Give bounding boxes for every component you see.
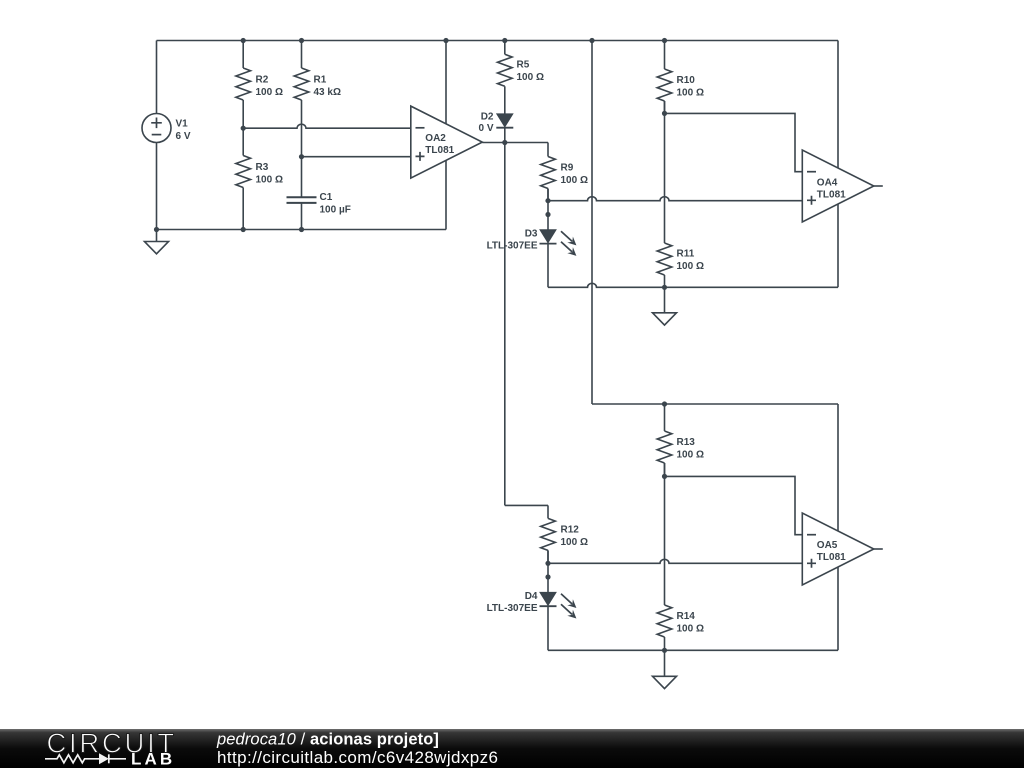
svg-text:V1: V1 bbox=[176, 119, 189, 130]
wire OA4 feedback (R10/R11 node to inverting input) bbox=[665, 113, 803, 171]
svg-text:6 V: 6 V bbox=[176, 131, 191, 142]
resistor R9 bbox=[541, 157, 556, 201]
svg-text:http://circuitlab.com/c6v428wj: http://circuitlab.com/c6v428wjdxpz6 bbox=[217, 748, 498, 767]
junction node R12/D4 segment joint bbox=[545, 574, 550, 579]
CircuitLab logo resistor-diode glyph bbox=[45, 754, 126, 763]
resistor R12 bbox=[541, 505, 556, 563]
diode D2 bbox=[496, 114, 513, 143]
svg-text:pedroca10 / acionas projeto]: pedroca10 / acionas projeto] bbox=[216, 730, 439, 748]
voltage source V1 bbox=[142, 114, 171, 143]
diode D3 bbox=[540, 230, 557, 287]
capacitor C1 bbox=[287, 197, 317, 229]
svg-text:TL081: TL081 bbox=[817, 190, 846, 201]
wire lower section bottom rail bbox=[548, 649, 838, 651]
svg-text:100 Ω: 100 Ω bbox=[256, 175, 283, 186]
wire OA5 power pins rail bbox=[837, 404, 839, 650]
svg-text:D2: D2 bbox=[481, 112, 494, 123]
svg-text:R1: R1 bbox=[314, 75, 327, 86]
wire OA5 output stub bbox=[874, 548, 883, 550]
wire OA4 non-inverting input (hops over two columns) bbox=[548, 197, 802, 201]
label R5 value bbox=[517, 60, 544, 84]
junction dot top rail at R1 top bbox=[299, 38, 304, 43]
op-amp OA5 bbox=[802, 513, 874, 585]
ground (left, V1 negative) bbox=[145, 230, 169, 254]
op-amp OA4 bbox=[802, 150, 874, 222]
svg-text:LAB: LAB bbox=[131, 750, 175, 768]
label C1 value bbox=[320, 192, 351, 216]
label R2 value bbox=[256, 75, 283, 99]
svg-text:OA2: OA2 bbox=[425, 133, 446, 144]
svg-text:R9: R9 bbox=[561, 163, 574, 174]
svg-text:R10: R10 bbox=[677, 75, 696, 86]
junction node R12/D4 to OA5 + bbox=[545, 561, 550, 566]
svg-text:LTL-307EE: LTL-307EE bbox=[487, 603, 538, 614]
wire R13 bottom to R14 top bbox=[664, 463, 666, 605]
svg-text:100 Ω: 100 Ω bbox=[256, 87, 283, 98]
svg-text:R5: R5 bbox=[517, 60, 530, 71]
wire upper section bottom rail (hop over feedback column) bbox=[548, 283, 838, 287]
junction node R10/R11 feedback bbox=[662, 111, 667, 116]
wire V1 bottom to ground rail bbox=[156, 143, 158, 230]
resistor R1 bbox=[294, 41, 309, 198]
svg-text:R12: R12 bbox=[561, 525, 580, 536]
resistor R10 bbox=[657, 41, 672, 114]
junction node OA2 output / D2 bbox=[502, 140, 507, 145]
junction node R2/R3 inverting bbox=[241, 126, 246, 131]
footer bar bbox=[0, 729, 1024, 768]
wire non-inverting input (C1 top to OA2) bbox=[302, 156, 411, 158]
svg-text:TL081: TL081 bbox=[817, 552, 846, 563]
svg-text:D3: D3 bbox=[525, 229, 538, 240]
junction node R3 bottom on ground rail bbox=[241, 227, 246, 232]
resistor R2 bbox=[236, 41, 251, 129]
junction dot top rail at R2 top bbox=[241, 38, 246, 43]
svg-text:100 Ω: 100 Ω bbox=[561, 537, 588, 548]
junction node R9/D3 segment joint bbox=[545, 212, 550, 217]
ground (upper right) bbox=[653, 287, 677, 325]
wire inverting input (R2/R3 node to OA2, hop over R1) bbox=[243, 124, 411, 128]
svg-text:100 µF: 100 µF bbox=[320, 205, 351, 216]
junction node ground rail at V1 bbox=[154, 227, 159, 232]
label R10 value bbox=[677, 75, 704, 99]
op-amp OA2 bbox=[411, 106, 483, 178]
label R9 value bbox=[561, 163, 588, 187]
resistor R11 bbox=[657, 243, 672, 287]
junction dot top rail at R5 top bbox=[502, 38, 507, 43]
svg-text:100 Ω: 100 Ω bbox=[677, 88, 704, 99]
svg-text:OA4: OA4 bbox=[817, 178, 838, 189]
label OA2 bbox=[425, 133, 454, 156]
junction dot top rail at OA2 V+ pin bbox=[443, 38, 448, 43]
wire feedback column (top rail down to lower section) bbox=[591, 41, 593, 405]
wire OA5 non-inverting input (hop over R13 column) bbox=[548, 559, 802, 563]
label D2 value bbox=[478, 112, 493, 135]
wire OA4 output stub bbox=[874, 185, 883, 187]
junction dot lower top rail at R13 bbox=[662, 401, 667, 406]
svg-text:R14: R14 bbox=[677, 611, 696, 622]
junction node R11 bottom / ground bbox=[662, 285, 667, 290]
svg-text:100 Ω: 100 Ω bbox=[677, 261, 704, 272]
junction dot top rail at feedback column top bbox=[589, 38, 594, 43]
LED arrows D4 bbox=[561, 594, 576, 619]
svg-text:43 kΩ: 43 kΩ bbox=[314, 87, 341, 98]
junction node R13/R14 feedback bbox=[662, 474, 667, 479]
label R14 value bbox=[677, 611, 704, 635]
svg-text:C1: C1 bbox=[320, 192, 333, 203]
wire R12 bottom to D4 bbox=[547, 550, 549, 592]
svg-text:TL081: TL081 bbox=[425, 145, 454, 156]
label OA5 bbox=[817, 540, 846, 563]
ground (lower right) bbox=[653, 650, 677, 688]
wire top supply rail bbox=[157, 40, 839, 42]
junction node C1 bottom on ground rail bbox=[299, 227, 304, 232]
junction node R9/D3 to OA4 + bbox=[545, 198, 550, 203]
wire D2 output node down to lower section bbox=[504, 143, 506, 506]
wire OA5 feedback (R13/R14 node to inverting input) bbox=[665, 476, 803, 534]
footer background bbox=[0, 729, 1024, 768]
wire OA2 output bbox=[482, 142, 548, 144]
label D4 value bbox=[487, 591, 538, 614]
svg-text:D4: D4 bbox=[525, 591, 538, 602]
wire R10 bottom to R11 top bbox=[664, 101, 666, 243]
svg-text:100 Ω: 100 Ω bbox=[677, 450, 704, 461]
label R1 value bbox=[314, 75, 341, 99]
wire OA2 power pins rail bbox=[445, 41, 447, 230]
label D3 value bbox=[487, 229, 538, 252]
svg-text:R2: R2 bbox=[256, 75, 269, 86]
label V1 value bbox=[176, 119, 191, 143]
wire OA2 output corner down to R9 bbox=[547, 143, 549, 157]
wire OA4 power pins rail bbox=[837, 41, 839, 288]
resistor R3 bbox=[236, 128, 251, 229]
resistor R13 bbox=[657, 404, 672, 476]
junction dot top rail at R10 top bbox=[662, 38, 667, 43]
label OA4 bbox=[817, 178, 846, 201]
svg-text:0 V: 0 V bbox=[478, 123, 493, 134]
label R13 value bbox=[677, 437, 704, 461]
svg-text:OA5: OA5 bbox=[817, 540, 838, 551]
wire jog from D2 column to R12 bbox=[505, 504, 548, 506]
svg-text:100 Ω: 100 Ω bbox=[517, 72, 544, 83]
svg-text:R13: R13 bbox=[677, 437, 696, 448]
wire left rail top (V1 to supply rail) bbox=[156, 41, 158, 114]
junction node R1/C1 non-inverting bbox=[299, 154, 304, 159]
LED arrows D3 bbox=[561, 231, 576, 256]
resistor R14 bbox=[657, 605, 672, 650]
label R3 value bbox=[256, 162, 283, 186]
svg-text:R11: R11 bbox=[677, 249, 695, 260]
diode D4 bbox=[540, 592, 557, 650]
resistor R5 bbox=[498, 41, 513, 114]
junction node R14 bottom / ground bbox=[662, 648, 667, 653]
svg-text:100 Ω: 100 Ω bbox=[561, 175, 588, 186]
label R11 value bbox=[677, 249, 704, 273]
label R12 value bbox=[561, 525, 588, 549]
svg-text:LTL-307EE: LTL-307EE bbox=[487, 241, 538, 252]
svg-text:R3: R3 bbox=[256, 162, 269, 173]
wire R9 bottom to D3 bbox=[547, 189, 549, 230]
wire lower section top rail bbox=[592, 403, 838, 405]
svg-text:100 Ω: 100 Ω bbox=[677, 624, 704, 635]
wire bottom ground rail bbox=[157, 229, 447, 231]
